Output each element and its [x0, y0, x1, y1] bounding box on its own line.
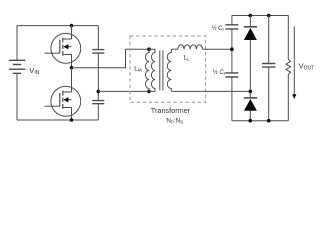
- arrow Vout: [293, 26, 295, 94]
- svg-text:½ Cr: ½ Cr: [212, 25, 225, 32]
- capacitor half-Cr top: [225, 25, 238, 29]
- transistor Q2 (low-side MOSFET): [45, 68, 81, 120]
- wire left input loop: [17, 26, 98, 120]
- junction diode leg top: [249, 14, 253, 18]
- junction Lm top: [147, 47, 151, 51]
- capacitor output: [262, 64, 275, 68]
- junction diode leg bottom rail: [249, 119, 253, 123]
- svg-text:½ Cr: ½ Cr: [213, 69, 226, 76]
- svg-text:VIN: VIN: [29, 66, 39, 76]
- wire right top rail: [232, 15, 288, 17]
- svg-text:Transformer: Transformer: [151, 106, 191, 115]
- wire midpoint to transformer primary top: [72, 49, 150, 67]
- junction Q2 source / bottom rail: [70, 118, 74, 122]
- wire Ll to rectifier: [203, 48, 232, 50]
- transformer dashed box: [130, 36, 206, 102]
- svg-text:LL: LL: [184, 55, 191, 62]
- transistor Q1 (high-side MOSFET): [45, 26, 81, 68]
- capacitor half-Cr bottom: [225, 73, 238, 77]
- junction Lm bottom: [147, 90, 151, 94]
- capacitor divider bottom: [92, 101, 104, 104]
- wire resonant capacitor column: [231, 16, 233, 121]
- diode D1: [244, 27, 257, 40]
- transformer primary winding: [152, 49, 155, 91]
- junction half-bridge midpoint: [70, 66, 74, 70]
- junction top rail / Q1 drain: [70, 24, 74, 28]
- junction primary return on divider: [97, 90, 101, 94]
- wire divider capacitor column: [97, 26, 99, 120]
- wire load branch: [287, 16, 289, 121]
- wire secondary top to Ll: [171, 48, 178, 50]
- resistor load: [286, 60, 291, 75]
- svg-text:LM: LM: [134, 66, 142, 73]
- wire right bottom rail: [232, 120, 288, 122]
- wire primary return: [98, 90, 149, 92]
- diode D2: [244, 98, 257, 111]
- inductor Lm (magnetizing): [146, 49, 150, 91]
- battery V_IN: [9, 60, 26, 73]
- wire output cap column: [268, 16, 270, 121]
- svg-text:VOUT: VOUT: [299, 62, 315, 72]
- transformer secondary winding: [167, 49, 171, 91]
- inductor Ll (leakage): [178, 45, 203, 49]
- wire secondary bottom to diode leg: [171, 90, 250, 92]
- junction output cap bottom: [267, 119, 271, 123]
- wire diode leg: [249, 16, 251, 121]
- wire Lm to primary: [149, 49, 155, 91]
- svg-text:NP:NS: NP:NS: [166, 118, 183, 125]
- junction Ll output on capacitor leg: [230, 47, 234, 51]
- junction secondary bottom on diode leg: [249, 90, 253, 94]
- transformer core: [160, 51, 163, 91]
- capacitor divider top: [92, 50, 104, 54]
- junction output cap top: [267, 14, 271, 18]
